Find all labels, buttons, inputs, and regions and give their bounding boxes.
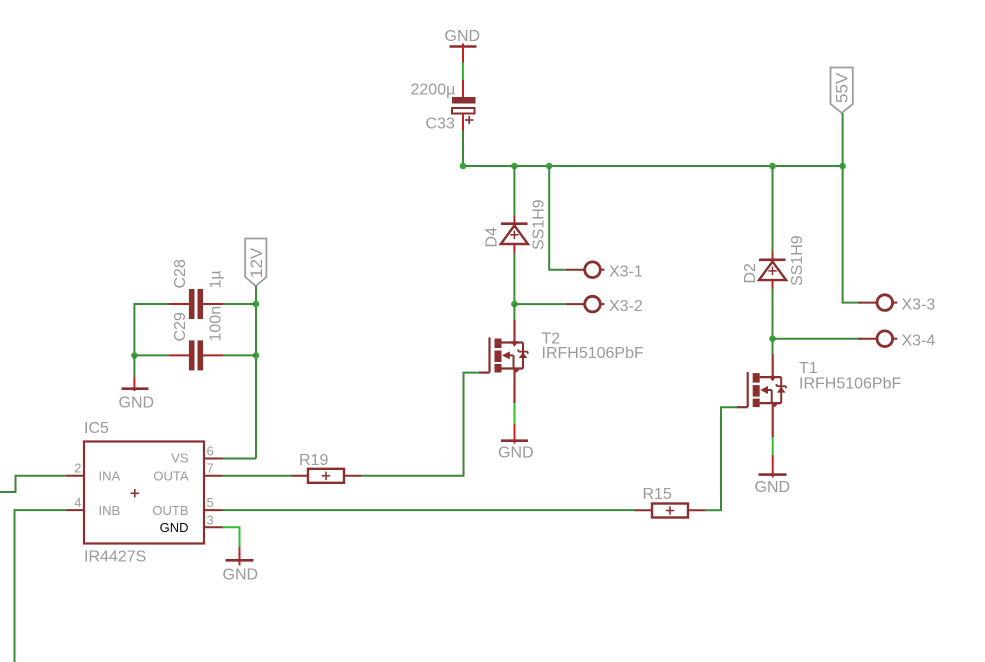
transistor T2 IRFH5106PbF xyxy=(479,320,644,403)
svg-text:X3-3: X3-3 xyxy=(902,297,936,314)
wire C28 net right xyxy=(223,303,256,305)
svg-text:X3-1: X3-1 xyxy=(609,264,643,281)
svg-text:6: 6 xyxy=(207,444,214,459)
pin 6 stub VS xyxy=(204,444,223,459)
ground GND (below T1) xyxy=(755,455,791,496)
wire main top bus xyxy=(463,165,843,167)
svg-text:55V: 55V xyxy=(832,72,851,103)
svg-text:C33: C33 xyxy=(426,116,455,133)
connector X3-2 xyxy=(566,296,643,315)
wire R15 to T1 gate xyxy=(705,407,737,510)
node junction D4/X3-2 xyxy=(511,301,518,308)
capacitor C28 1u xyxy=(169,259,225,319)
wire INA input from left edge xyxy=(0,476,66,492)
ground GND (above C33) xyxy=(445,28,481,63)
svg-text:GND: GND xyxy=(223,567,259,584)
svg-text:4: 4 xyxy=(74,495,81,510)
svg-text:SS1H9: SS1H9 xyxy=(789,235,806,286)
resistor R19 xyxy=(291,452,361,483)
svg-text:IRFH5106PbF: IRFH5106PbF xyxy=(799,376,901,393)
svg-text:12V: 12V xyxy=(247,247,266,278)
wire X3-4 node down to T1 drain xyxy=(772,339,774,354)
svg-text:SS1H9: SS1H9 xyxy=(531,199,548,250)
wire bus down to D4 xyxy=(513,166,515,216)
connector X3-4 xyxy=(859,331,936,350)
wire R19 to T2 gate xyxy=(361,373,479,476)
svg-text:100n: 100n xyxy=(208,306,225,342)
svg-text:C28: C28 xyxy=(172,259,189,288)
wire X3-4 net xyxy=(773,338,863,340)
node junction rail/C29 xyxy=(253,352,260,359)
diode D4 SS1H9 xyxy=(484,199,548,253)
svg-text:GND: GND xyxy=(119,395,155,412)
wire 12V rail xyxy=(255,286,257,459)
svg-text:VS: VS xyxy=(171,451,189,466)
svg-text:INA: INA xyxy=(99,469,121,484)
ground GND (left of IC5) xyxy=(119,377,155,412)
svg-text:INB: INB xyxy=(99,503,121,518)
pin 5 stub OUTB xyxy=(204,495,223,510)
diode D2 SS1H9 xyxy=(742,235,806,289)
svg-text:C29: C29 xyxy=(172,312,189,341)
transistor T1 IRFH5106PbF xyxy=(737,354,901,437)
svg-text:1µ: 1µ xyxy=(208,270,225,288)
node junction D2/bus xyxy=(769,163,776,170)
connector X3-3 xyxy=(859,295,936,314)
wire OUTB to R15 xyxy=(223,509,636,511)
wire pin3 to GND xyxy=(223,527,240,547)
wire C33 to bus xyxy=(462,131,464,166)
wire bus down to D2 xyxy=(772,166,774,252)
node junction C33/bus xyxy=(460,163,467,170)
wire OUTA to R19 xyxy=(223,475,292,477)
pin 3 stub GND xyxy=(204,513,223,528)
pin 2 stub INA xyxy=(66,461,84,476)
capacitor C33 2200u polarized xyxy=(411,80,476,133)
svg-text:IRFH5106PbF: IRFH5106PbF xyxy=(542,345,644,362)
pin 7 stub OUTA xyxy=(204,461,223,476)
supply 12V flag xyxy=(245,239,266,287)
svg-text:2: 2 xyxy=(74,461,81,476)
capacitor C29 100n xyxy=(169,306,225,370)
node junction 55V/bus xyxy=(839,163,846,170)
wire C28 net left xyxy=(134,304,168,355)
wire D2 to X3-4 node xyxy=(772,289,774,339)
svg-text:R15: R15 xyxy=(643,486,672,503)
svg-text:GND: GND xyxy=(160,520,189,535)
svg-text:GND: GND xyxy=(498,445,534,462)
wire X3-2 node down to T2 drain xyxy=(513,304,515,320)
node junction C29 left xyxy=(131,352,138,359)
wire INB input from bottom edge xyxy=(15,510,67,662)
svg-text:2200µ: 2200µ xyxy=(411,82,456,99)
node junction D4/bus xyxy=(511,163,518,170)
svg-text:X3-2: X3-2 xyxy=(609,298,643,315)
wire X3-2 net xyxy=(514,303,565,305)
wire C29 net left xyxy=(134,354,168,356)
wire 55V drop to X3-3 xyxy=(843,166,862,303)
wire net between GND and C33 xyxy=(462,63,464,81)
svg-text:5: 5 xyxy=(207,495,214,510)
svg-text:GND: GND xyxy=(445,28,481,45)
svg-text:R19: R19 xyxy=(299,452,328,469)
wire 55V flag to bus xyxy=(842,113,844,166)
svg-text:X3-4: X3-4 xyxy=(902,333,936,350)
connector X3-1 xyxy=(566,262,643,281)
ground GND (below T2) xyxy=(498,424,534,462)
svg-text:IR4427S: IR4427S xyxy=(84,549,146,566)
svg-text:IC5: IC5 xyxy=(84,420,109,437)
wire D4 to X3-2 node xyxy=(513,253,515,304)
svg-text:GND: GND xyxy=(755,479,791,496)
node junction rail/C28 xyxy=(253,301,260,308)
ground GND (IC5 pin 3) xyxy=(223,547,259,584)
svg-text:7: 7 xyxy=(207,461,214,476)
svg-text:3: 3 xyxy=(207,513,214,528)
svg-text:T1: T1 xyxy=(799,360,818,377)
svg-text:OUTA: OUTA xyxy=(153,469,188,484)
wire T2 source net xyxy=(514,403,516,424)
svg-text:D2: D2 xyxy=(742,263,759,284)
node junction D2/T1/X3-4 xyxy=(769,335,776,342)
wire down to left GND xyxy=(133,355,135,377)
wire VS to 12V rail xyxy=(223,458,257,460)
wire T1 source net xyxy=(772,437,774,455)
node junction X3-1 drop/bus xyxy=(546,163,553,170)
pin 4 stub INB xyxy=(66,495,84,510)
wire bus down to X3-1 xyxy=(549,166,566,270)
supply 55V flag xyxy=(831,68,853,114)
IC U IC5 IR4427S xyxy=(84,420,204,566)
svg-text:OUTB: OUTB xyxy=(152,503,188,518)
wire C29 net right xyxy=(223,354,256,356)
svg-text:D4: D4 xyxy=(484,227,501,248)
resistor R15 xyxy=(635,486,705,518)
